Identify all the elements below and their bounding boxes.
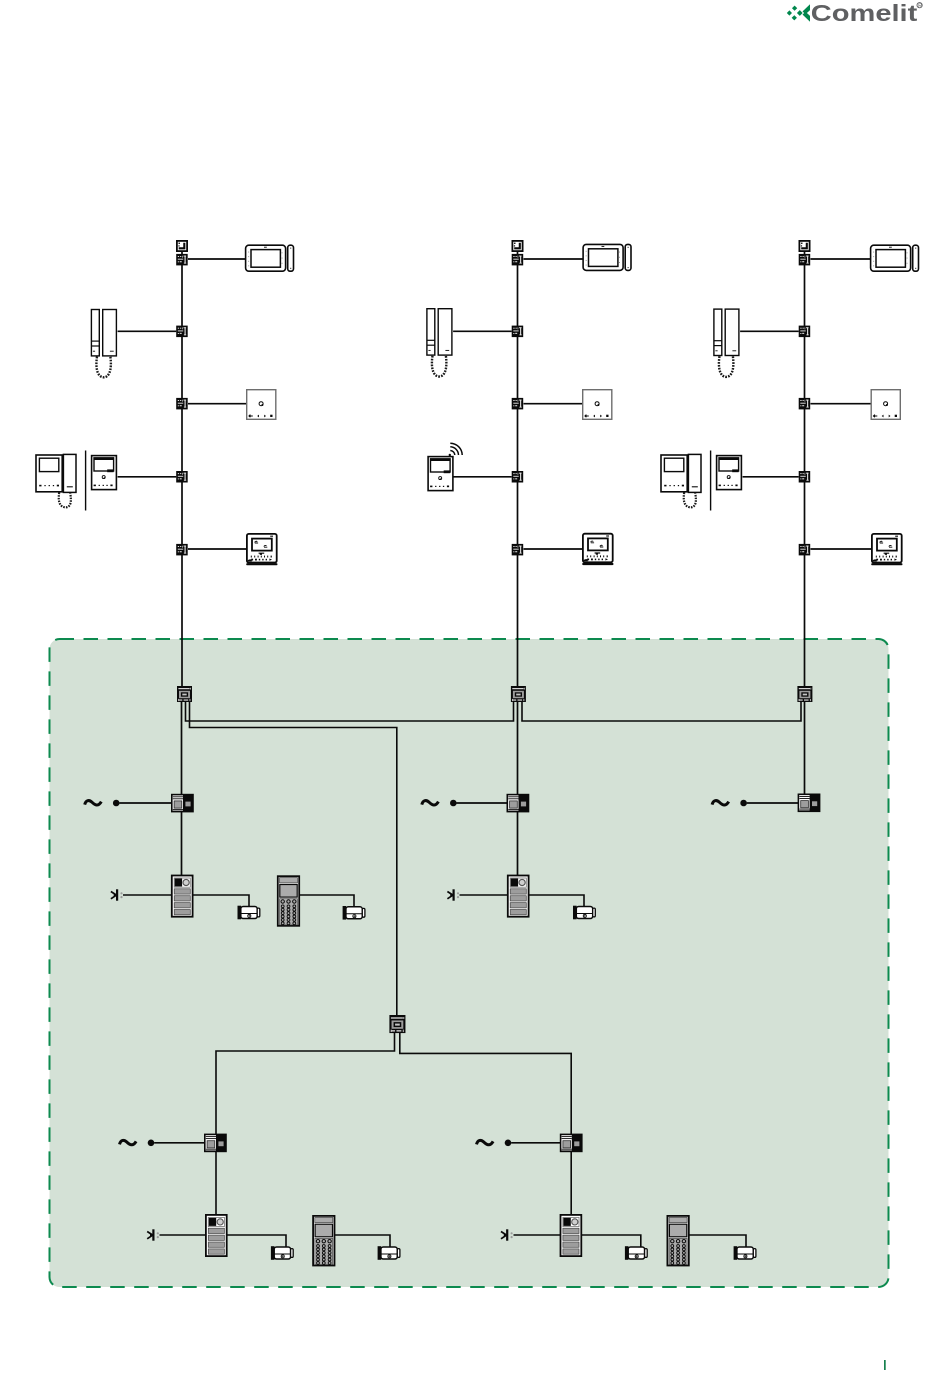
wire keypad4 to lock5 (335, 1235, 390, 1247)
distributor col2 row1 (512, 254, 524, 266)
wire handset row2 col1 (118, 330, 177, 332)
wire lock-symbol to panel5 (514, 1234, 561, 1236)
wire smart row5 col2 (524, 548, 583, 550)
wire riser 3 (804, 246, 806, 686)
mini hands-free col3 (871, 390, 900, 420)
gateway 3 (797, 686, 812, 702)
AC mains symbol PSU4 (120, 1140, 155, 1147)
wire lock-symbol to panel1 (123, 894, 172, 896)
gateway 1 (177, 686, 192, 702)
video monitor col3 (871, 245, 919, 271)
AC mains symbol PSU2 (422, 800, 457, 807)
wire panel1 to lock1 (193, 895, 249, 907)
video hands-free monitor col1 (92, 456, 117, 490)
audio handset col1 (91, 310, 116, 378)
mini hands-free col2 (583, 390, 612, 420)
wire AC to PSU1 (119, 802, 171, 804)
wire smart row5 col1 (188, 548, 246, 550)
wire riser 1 (181, 246, 183, 686)
entrance panel 4 (206, 1215, 227, 1256)
gateway 2 (511, 686, 526, 702)
lock release 3 (573, 906, 595, 920)
svg-text:Comelit: Comelit (811, 0, 918, 26)
wire central unit left branch to PSU4 and panel4 (216, 1033, 395, 1215)
distributor col1 row5 (176, 544, 188, 556)
wire gateway2 to PSU2 and panel2 (517, 702, 519, 875)
wire mini row3 col1 (188, 403, 246, 405)
wire AC to PSU4 (154, 1142, 204, 1144)
power supply PSU4 (205, 1134, 226, 1151)
lock release 1 (238, 906, 260, 920)
wire keypad5 to lock7 (690, 1235, 747, 1247)
wire handset row2 col2 (453, 330, 512, 332)
wire bus gateway2-gateway3 (522, 702, 801, 721)
keypad panel 1 (278, 876, 299, 926)
keypad panel 5 (667, 1216, 688, 1266)
AC mains symbol PSU5 (477, 1140, 512, 1147)
entrance panel 5 (561, 1215, 582, 1256)
distributor col2 row3 (512, 398, 524, 410)
lock symbol panel4 (147, 1229, 159, 1240)
wire panel5 to lock6 (582, 1235, 641, 1247)
distributor col3 row4 (799, 471, 811, 483)
svg-text:R: R (918, 3, 922, 9)
wire AC to PSU2 (457, 802, 508, 804)
power supply PSU5 (561, 1134, 582, 1151)
lock symbol panel2 (447, 889, 459, 900)
wire monitor row1 col1 (188, 258, 245, 260)
wire smart row5 col3 (811, 548, 872, 550)
distributor col3 row3 (799, 398, 811, 410)
wire mini row3 col2 (524, 403, 583, 405)
wire panel2 to lock3 (529, 895, 584, 907)
audio handset col2 (427, 309, 452, 377)
lock release 7 (734, 1246, 756, 1260)
video handset monitor col1 (36, 454, 76, 507)
video hands-free monitor col3 (717, 456, 742, 490)
distributor col3 row5 (799, 544, 811, 556)
wire wifi row4 col2 (453, 476, 511, 478)
wire gateway1 to PSU1 and panel1 (181, 702, 183, 875)
mini hands-free col1 (247, 390, 276, 420)
wire bus gateway1-gateway2 (186, 702, 514, 721)
video monitor col1 (246, 245, 294, 271)
wire gateway3 to PSU3 (804, 702, 806, 795)
lock release 5 (378, 1246, 400, 1260)
keypad panel 4 (313, 1216, 334, 1266)
wire riser 2 (517, 246, 519, 686)
smart monitor col3 (872, 534, 902, 564)
distributor col2 row4 (512, 471, 524, 483)
entrance panel 1 (172, 876, 193, 917)
footer page mark (884, 1360, 886, 1370)
Comelit logo (786, 0, 922, 26)
video monitor col2 (583, 244, 631, 270)
wire central unit right branch to PSU5 and panel5 (400, 1033, 571, 1215)
distributor col1 row2 (176, 326, 188, 338)
power supply PSU2 (507, 795, 528, 812)
lock release 6 (625, 1246, 647, 1260)
node divider row4 col3 (710, 451, 712, 511)
smart monitor col2 (583, 534, 613, 564)
wire video row4 col1 (118, 476, 177, 478)
lock release 2 (343, 906, 365, 920)
lock release 4 (271, 1246, 293, 1260)
central switching unit (389, 1015, 405, 1033)
audio handset col3 (714, 309, 739, 377)
node divider row4 col1 (85, 451, 87, 511)
distributor col3 row2 (799, 326, 811, 338)
wire AC to PSU5 (511, 1142, 560, 1144)
entrance panel 2 (508, 876, 529, 917)
green common-area zone (50, 639, 889, 1287)
wire AC to PSU3 (747, 802, 798, 804)
distributor col2 row2 (512, 326, 524, 338)
lock symbol panel1 (111, 889, 123, 900)
wire panel4 to lock4 (228, 1235, 287, 1247)
wire lock-symbol to panel2 (460, 894, 508, 896)
power supply PSU3 (798, 794, 819, 811)
distributor col1 row3 (176, 398, 188, 410)
AC mains symbol PSU1 (85, 800, 120, 807)
wire handset row2 col3 (740, 330, 799, 332)
distributor col1 row1 (176, 254, 188, 266)
wifi video monitor col2 (428, 457, 453, 491)
wire monitor row1 col2 (524, 258, 583, 260)
distributor col3 row1 (799, 254, 811, 266)
wire video row4 col3 (743, 476, 799, 478)
AC mains symbol PSU3 (712, 800, 747, 807)
wire keypad1 to lock2 (300, 895, 354, 907)
power supply PSU1 (172, 795, 193, 812)
wire mini row3 col3 (811, 403, 871, 405)
distributor col1 row4 (176, 471, 188, 483)
wifi arcs col2 (449, 443, 463, 456)
smart monitor col1 (247, 534, 277, 564)
video handset monitor col3 (661, 454, 701, 507)
lock symbol panel5 (501, 1229, 513, 1240)
wire monitor row1 col3 (811, 258, 871, 260)
line terminator col3 (799, 241, 809, 251)
line terminator col2 (512, 241, 522, 251)
wire trunk gateway1 to central unit (190, 702, 397, 1016)
distributor col2 row5 (512, 544, 524, 556)
wire lock-symbol to panel4 (160, 1234, 206, 1236)
line terminator col1 (177, 241, 187, 251)
